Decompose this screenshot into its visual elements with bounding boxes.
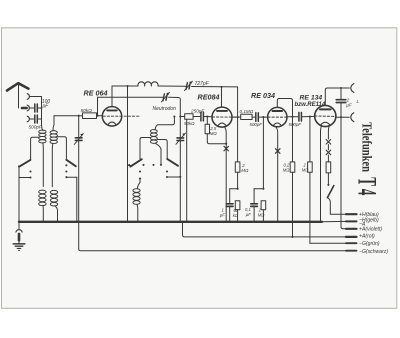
- wire V2 plate lead: [221, 87, 223, 107]
- svg-text:500pF: 500pF: [250, 122, 263, 127]
- switch S5 lever: [327, 186, 333, 198]
- tube V3 anode: [273, 110, 283, 112]
- coil L3 long-wave left: [39, 190, 46, 194]
- capacitor C8 500pF: [298, 112, 300, 121]
- wire coupling V2 to V3: [232, 116, 241, 118]
- wire feed x127.5 to bus: [127, 86, 129, 222]
- wire to terminal +A violett: [341, 117, 346, 229]
- jack J3: [27, 116, 29, 122]
- node junction varcap VC1: [78, 115, 80, 117]
- tube V2 RE084 envelope: [212, 107, 232, 127]
- value label 100pF: [29, 81, 389, 255]
- resistor R8 0.2MOhm: [290, 162, 295, 172]
- wire L4 bottom to bus: [55, 206, 58, 222]
- wire S5 to terminal +H: [327, 198, 346, 215]
- wire L5 bottom to contact: [155, 143, 161, 164]
- resistor R1 50kOhm: [83, 113, 97, 119]
- wire V2 filament lead with X: [225, 127, 227, 222]
- choke Dr (HF choke): [138, 82, 158, 86]
- wire S2 contact row: [66, 176, 76, 178]
- wire to terminal +A rot: [183, 222, 347, 237]
- svg-text:bzw.RE114: bzw.RE114: [295, 102, 326, 108]
- wire L2 top to grid line: [53, 116, 54, 131]
- svg-text:MΩ: MΩ: [210, 131, 218, 136]
- tube V3 filament: [273, 123, 281, 126]
- terminal stub T4: [346, 236, 357, 238]
- svg-text:Neutrodon: Neutrodon: [153, 106, 177, 112]
- wire L3 bottom to bus: [42, 205, 44, 222]
- wire J1 to node: [30, 96, 42, 98]
- main bus (thick): [19, 221, 322, 223]
- wire S4 top to L5: [157, 140, 167, 159]
- svg-text:500pF: 500pF: [289, 122, 302, 127]
- svg-text:50kΩ: 50kΩ: [81, 108, 93, 114]
- svg-text:MΩ: MΩ: [302, 167, 309, 172]
- wire V4 filament left to bus: [320, 126, 323, 222]
- coil L2 antenna secondary: [50, 131, 57, 134]
- switch S3 lever: [130, 159, 141, 166]
- tube V4 grid dashed: [315, 115, 336, 117]
- wire V4 plate: [325, 88, 341, 105]
- tube V1 grid (dashed): [103, 115, 140, 117]
- wire plate line y86: [112, 85, 138, 87]
- wire L1 bottom to L3: [42, 143, 44, 187]
- decoupling under V2: capacitor C7 1uF: [230, 188, 238, 190]
- resistor R5 0.1MOhm: [241, 114, 252, 119]
- svg-text:µF: µF: [246, 212, 251, 217]
- bus junction dots: [18, 221, 20, 223]
- tube V2 filament: [218, 123, 226, 126]
- wire plate feed x237.6 down: [237, 87, 239, 162]
- tube V1 RE064 envelope: [102, 107, 121, 126]
- wire to terminal -G schwarz: [79, 222, 346, 251]
- svg-text:Telefunken: Telefunken: [359, 122, 375, 172]
- jack J1 (direct antenna socket): [27, 94, 29, 100]
- svg-text:RE 064: RE 064: [84, 89, 108, 98]
- svg-text:−G(grün): −G(grün): [359, 241, 380, 247]
- wire V1 plate up: [111, 86, 113, 107]
- wire antenna node down to coil L1: [42, 97, 44, 131]
- tube V4 filament: [321, 122, 330, 125]
- wire to terminal -G gruen: [310, 242, 346, 244]
- svg-text:500pF: 500pF: [29, 124, 43, 129]
- wire L2 bottom down to L4: [51, 143, 54, 187]
- resistor R4 2MOhm: [235, 162, 240, 172]
- tube V1 filament: [108, 122, 116, 125]
- wire V3 plate: [277, 99, 292, 162]
- coil L1 antenna primary: [39, 130, 46, 133]
- capacitor C6 0.1uF: [254, 188, 263, 190]
- resistor R6 2MOhm: [261, 201, 266, 210]
- svg-text:pF: pF: [42, 104, 50, 110]
- svg-text:T 4: T 4: [352, 177, 382, 196]
- wire V3 filament with X: [276, 126, 278, 221]
- wire S1 contact row: [19, 177, 31, 179]
- svg-text:+A(violett): +A(violett): [359, 227, 382, 233]
- terminal stub T2: [346, 220, 357, 222]
- svg-text:L: L: [357, 99, 360, 104]
- wire L6 top to contact: [137, 179, 140, 189]
- wire neutrodyne line y97: [98, 96, 163, 98]
- wire antenna down-lead: [18, 85, 20, 109]
- svg-text:MΩ: MΩ: [241, 168, 249, 173]
- switch S2 lever: [66, 160, 75, 166]
- terminal stub T5: [346, 242, 357, 244]
- jack J4 output top: [341, 87, 349, 89]
- wire S4 contact row: [167, 176, 180, 178]
- jack J2: [27, 105, 29, 111]
- coil L6 long-wave 2: [133, 189, 140, 193]
- switch S4 lever: [167, 159, 178, 166]
- svg-text:MΩ: MΩ: [283, 167, 290, 172]
- wire V4 filament right chain with X X: [327, 126, 330, 139]
- switch S1 lever: [20, 160, 31, 167]
- coil L5 secondary 2: [150, 130, 157, 133]
- wire L5 top to grid wire: [155, 117, 174, 130]
- trimmer CT1 727pF: [186, 83, 187, 90]
- svg-text:MΩ: MΩ: [258, 212, 265, 217]
- tube V2 grid dashed: [212, 116, 236, 118]
- resistor R2 50kOhm grid: [185, 114, 193, 119]
- terminal stub T6: [346, 250, 357, 252]
- capacitor C5 500pF: [255, 113, 257, 122]
- wire grid line V1: [54, 115, 83, 117]
- switch S2 contacts: [65, 164, 67, 166]
- svg-text:727pF: 727pF: [195, 81, 210, 87]
- svg-text:250pF: 250pF: [190, 109, 205, 114]
- ground: [18, 222, 20, 229]
- wire coupling V3 to V4: [287, 116, 298, 118]
- antenna: [7, 83, 28, 90]
- wire L2 tap to switch S2: [57, 137, 66, 160]
- wire choke to trimmer: [158, 85, 186, 87]
- tube V2 anode: [217, 110, 227, 112]
- wire trimmer to V2 plate and corner: [192, 86, 238, 88]
- wire grid V1 up-junction: [97, 97, 99, 115]
- jack J5 output bottom: [340, 116, 342, 118]
- wire L1 tap to switch S1: [31, 137, 39, 160]
- capacitor C2 500pF: [30, 118, 34, 120]
- wire S2 contact to bus: [76, 177, 78, 222]
- wire L5 tap to switch S3: [140, 138, 151, 159]
- svg-text:µF: µF: [346, 102, 352, 107]
- trimmer CT2 Neutrodon: [163, 94, 164, 101]
- tube V4 anode: [320, 108, 331, 110]
- resistor R9 2MOhm grid leak V4: [309, 116, 311, 118]
- coil L4 long-wave right: [50, 190, 57, 194]
- capacitor C1 100pF: [30, 107, 34, 109]
- capacitor C9 2uF: [340, 88, 342, 99]
- tube V4 RE134 envelope: [315, 105, 336, 126]
- svg-text:−G(schwarz): −G(schwarz): [359, 249, 388, 255]
- switch S1 contacts: [29, 170, 31, 172]
- resistor R3 2.5MOhm grid leak: [206, 117, 208, 125]
- svg-text:RE 034: RE 034: [251, 91, 275, 100]
- plug P1 into jack J2: [22, 107, 27, 110]
- svg-text:µF: µF: [220, 213, 225, 218]
- svg-text:50kΩ: 50kΩ: [184, 121, 195, 126]
- variable capacitor VC2: [177, 137, 184, 139]
- tube V3 grid dashed: [268, 116, 287, 118]
- resistor R7 50kOhm: [235, 201, 240, 210]
- capacitor C4 250pF grid: [200, 112, 202, 121]
- terminal stub T3: [346, 228, 357, 230]
- resistor R10 filament: [326, 162, 331, 173]
- wire neutrodon to tuned circuit 2: [169, 97, 181, 137]
- wire L6 bottom to bus: [136, 204, 139, 222]
- wire grid return x186.7 to bus: [186, 119, 188, 222]
- brand text Telefunken (vertical): [352, 122, 382, 196]
- wire S1 to bus: [18, 166, 20, 221]
- tube V1 anode: [107, 109, 117, 111]
- terminal stub T1: [346, 213, 357, 215]
- tube V3 RE034 envelope: [268, 107, 287, 126]
- svg-text:kΩ: kΩ: [233, 213, 239, 218]
- variable capacitor VC1: [78, 116, 80, 138]
- grid leak network V3 junction: [262, 116, 264, 118]
- svg-text:+A(rot): +A(rot): [359, 233, 375, 239]
- svg-text:0,1MΩ: 0,1MΩ: [240, 109, 254, 114]
- wire grid V2 chain: [180, 116, 184, 118]
- svg-text:RE084: RE084: [198, 93, 220, 102]
- svg-text:RE 134: RE 134: [300, 95, 323, 102]
